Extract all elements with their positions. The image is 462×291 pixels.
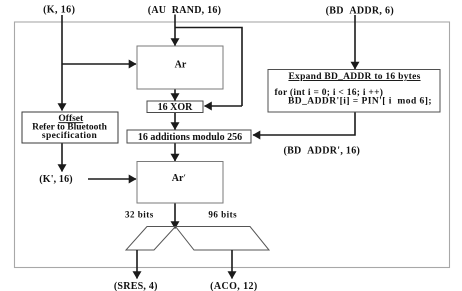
svg-text:(K, 16): (K, 16) — [43, 4, 75, 15]
svg-text:specification: specification — [42, 131, 98, 141]
svg-text:(K', 16): (K', 16) — [39, 174, 72, 185]
block 16 XOR — [147, 101, 203, 113]
outer border frame — [15, 22, 450, 268]
wire ACO output — [231, 250, 233, 279]
block Ar' — [137, 162, 223, 204]
splitter left parallelogram — [126, 227, 176, 251]
wire SRES output — [136, 250, 138, 279]
wire K input down to Offset box — [61, 15, 63, 111]
wire K' into Ar' left — [88, 178, 136, 180]
wire Ar' down to split — [174, 203, 176, 229]
splitter right parallelogram — [176, 227, 270, 251]
wire AU RAND branch right — [175, 28, 242, 107]
block Offset / Refer to Bluetooth specification — [22, 112, 118, 143]
svg-text:(SRES, 4): (SRES, 4) — [114, 281, 158, 291]
svg-text:(ACO, 12): (ACO, 12) — [210, 281, 257, 291]
svg-text:32 bits: 32 bits — [125, 209, 154, 219]
block 16 additions modulo 256 — [127, 130, 251, 143]
wire into 16 XOR right side — [205, 105, 243, 107]
wire BD ADDR down into Expand box — [354, 15, 356, 69]
svg-text:(BD ADDR', 16): (BD ADDR', 16) — [283, 145, 360, 156]
svg-text:BD_ADDR'[i] = PIN'[ i mod 6];: BD_ADDR'[i] = PIN'[ i mod 6]; — [288, 97, 432, 107]
wire Offset box down — [61, 143, 63, 172]
block Expand BD_ADDR — [268, 70, 440, 113]
wire Expand box down-left to additions box — [253, 112, 355, 135]
svg-text:16 XOR: 16 XOR — [158, 102, 194, 113]
block Ar — [137, 46, 223, 89]
wire Ar to 16 XOR — [174, 89, 176, 101]
wire K branch to Ar left — [62, 63, 136, 65]
svg-text:Expand BD_ADDR to 16 bytes: Expand BD_ADDR to 16 bytes — [288, 72, 420, 82]
wire additions box to Ar' — [174, 143, 176, 161]
wire AU RAND down into Ar — [174, 15, 176, 46]
svg-text:96 bits: 96 bits — [208, 209, 237, 219]
svg-text:16 additions modulo 256: 16 additions modulo 256 — [138, 132, 242, 143]
wire 16 XOR to additions box — [174, 113, 176, 130]
svg-text:(AU RAND, 16): (AU RAND, 16) — [148, 5, 222, 16]
svg-text:Ar: Ar — [175, 60, 187, 71]
svg-text:(BD ADDR, 6): (BD ADDR, 6) — [326, 6, 394, 17]
